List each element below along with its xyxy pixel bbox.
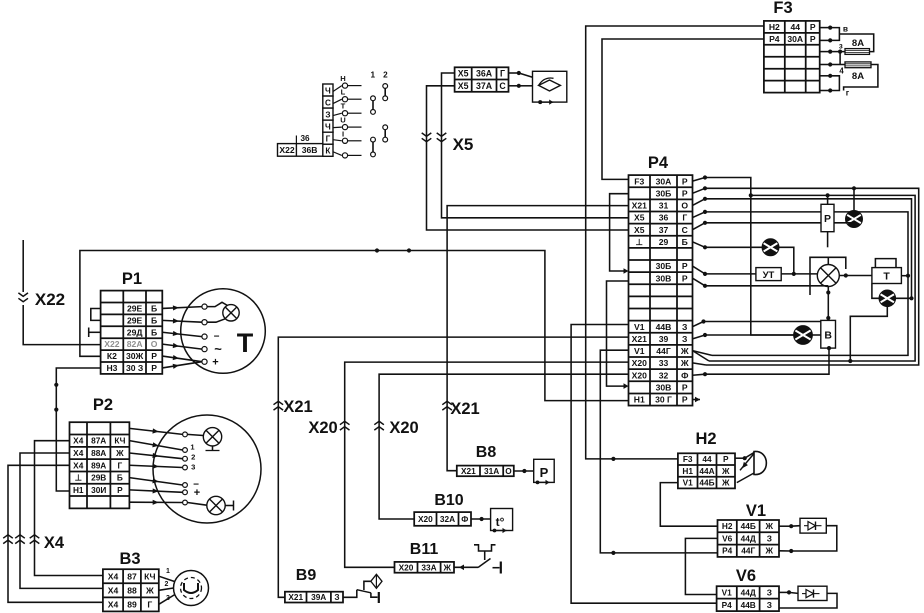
svg-text:Т: Т [883, 271, 890, 283]
svg-text:Т: Т [237, 328, 254, 358]
junction dots on net29 wire [375, 248, 379, 252]
svg-text:Р: Р [117, 485, 123, 495]
svg-text:30 З: 30 З [126, 363, 143, 373]
speedometer housing circle [153, 415, 261, 523]
wire P4 44V to V6 via left vertical [571, 325, 717, 604]
pressure sensor P box [534, 459, 555, 482]
connector block V1 table [718, 520, 780, 557]
B3 terminal wires [159, 576, 175, 581]
switch contact terminals H L T U I [333, 74, 362, 158]
wire X4-87 net [35, 441, 103, 576]
svg-text:44: 44 [790, 22, 800, 32]
connector block V6 table [717, 586, 779, 611]
sensor t output arrow [493, 529, 497, 533]
svg-text:О: О [505, 466, 512, 476]
lamp HL2 mid with leads row6 [693, 242, 706, 247]
wire B10 to sensor box [471, 518, 491, 520]
harness break X5 [437, 133, 447, 136]
svg-text:F3: F3 [773, 0, 792, 17]
wire X4-88 net [20, 453, 103, 588]
svg-text:С: С [325, 98, 331, 107]
svg-text:44Б: 44Б [741, 521, 756, 531]
svg-text:8А: 8А [852, 71, 864, 82]
F3 row4 wire to fuse2 left [830, 64, 845, 66]
relay P box [827, 195, 829, 204]
svg-text:Н2: Н2 [722, 521, 733, 531]
P1 to tachometer connection wires [162, 307, 202, 309]
F3 bracket rows3-4 [839, 52, 841, 65]
svg-text:В: В [824, 330, 832, 342]
switch position columns 1 2 with contact bars [371, 71, 389, 157]
row9 wire to main lamp bottom [693, 278, 706, 286]
fuse2 return wire to rows5-6 [844, 65, 878, 91]
relay T right wire [901, 275, 908, 277]
svg-text:Ж: Ж [680, 358, 689, 368]
svg-text:1: 1 [371, 71, 376, 80]
svg-text:Т: Т [341, 102, 346, 111]
V6 diode box [779, 591, 789, 593]
wire X5 row1 to flasher [509, 72, 519, 74]
flasher diamond symbol [539, 80, 561, 91]
svg-text:89: 89 [127, 599, 137, 609]
harness wire X22 [22, 240, 24, 292]
svg-text:39А: 39А [311, 592, 326, 602]
harness break X21 left [274, 401, 284, 404]
svg-text:Ч: Ч [325, 86, 331, 95]
svg-text:Ж: Ж [721, 478, 730, 488]
nested loop wire A row2 [693, 188, 706, 193]
svg-text:Г: Г [147, 599, 152, 609]
svg-text:33А: 33А [421, 562, 436, 572]
svg-text:В3: В3 [119, 550, 140, 568]
svg-text:Р: Р [540, 465, 549, 480]
V6 diode return loop [779, 593, 837, 608]
H2 horn symbol bell [754, 451, 766, 474]
svg-text:8А: 8А [852, 38, 864, 49]
svg-text:С: С [682, 225, 688, 235]
svg-text:Р4: Р4 [722, 600, 733, 610]
svg-text:Р: Р [151, 363, 157, 373]
svg-text:Б: Б [117, 473, 123, 483]
svg-text:39: 39 [659, 334, 669, 344]
B11 switch wire with arrow [454, 566, 478, 568]
svg-text:X21: X21 [450, 400, 479, 418]
P2 to speedometer wires [129, 428, 182, 434]
P4 row1 wire to indicator lamp via right vertical [693, 178, 706, 182]
svg-text:З: З [325, 110, 330, 119]
tachometer terminals [202, 304, 207, 309]
svg-text:Ж: Ж [765, 521, 774, 531]
svg-text:Г: Г [326, 135, 331, 144]
main lamp top lead [827, 257, 829, 264]
P4 row13 wire to relay V top [693, 322, 704, 327]
connector B11 [395, 562, 455, 573]
svg-text:36: 36 [659, 213, 669, 223]
svg-text:44Д: 44Д [741, 587, 756, 597]
wire P4 44G to V1 via left vertical [600, 350, 718, 553]
svg-text:30Ж: 30Ж [126, 351, 144, 361]
H2 lead row1 [735, 457, 745, 459]
svg-text:87А: 87А [91, 436, 106, 446]
relay V bottom wire to row17 [693, 374, 706, 375]
svg-text:Г: Г [682, 213, 687, 223]
svg-text:Н: Н [340, 74, 345, 83]
svg-text:В11: В11 [410, 541, 439, 558]
svg-text:В8: В8 [476, 444, 497, 461]
svg-text:V1: V1 [683, 478, 694, 488]
svg-text:36: 36 [300, 134, 310, 143]
wire P4 X21-31 down to B8 [447, 206, 628, 471]
connector B9 [285, 592, 343, 603]
svg-text:44Г: 44Г [741, 546, 755, 556]
svg-text:Р2: Р2 [93, 396, 113, 414]
svg-text:З: З [767, 600, 772, 610]
indicator lamp HL3 [879, 290, 896, 307]
svg-text:4: 4 [839, 66, 844, 75]
bracket frame around main lamp [810, 257, 846, 295]
svg-text:V6: V6 [722, 533, 733, 543]
indicator lamp HL1 top right [853, 188, 855, 210]
svg-text:X20: X20 [418, 514, 433, 524]
svg-text:X20: X20 [399, 562, 414, 572]
svg-text:З: З [682, 322, 687, 332]
svg-text:29: 29 [659, 237, 669, 247]
svg-text:V1: V1 [722, 587, 733, 597]
relay T box [872, 268, 902, 284]
tachometer T housing circle [181, 289, 266, 374]
speedometer lamp top [203, 428, 221, 446]
svg-text:44Д: 44Д [741, 533, 756, 543]
svg-text:87: 87 [127, 571, 137, 581]
P1 row7 wire to P2 H1 net [56, 368, 100, 491]
svg-text:X21: X21 [288, 592, 303, 602]
svg-text:V1: V1 [634, 322, 645, 332]
svg-text:З: З [767, 533, 772, 543]
wire 37A down to P4 X5-37 [427, 86, 629, 230]
harness break X4 marks [30, 535, 40, 538]
svg-text:Ж: Ж [765, 546, 774, 556]
svg-text:Р4: Р4 [722, 546, 733, 556]
main indicator lamp (large) [817, 265, 839, 287]
svg-text:X4: X4 [73, 436, 84, 446]
svg-text:~: ~ [214, 342, 222, 357]
svg-text:37: 37 [659, 225, 669, 235]
connector X22 36B [278, 134, 323, 156]
B9 lamp lead [364, 581, 371, 590]
lamp HL4 to relay V left [812, 334, 820, 336]
svg-text:30 Г: 30 Г [655, 395, 672, 405]
svg-text:X21: X21 [461, 466, 476, 476]
svg-text:Ж: Ж [443, 562, 452, 572]
F3 terminal stubs [820, 27, 831, 29]
connector B10 [414, 512, 471, 526]
svg-text:Р: Р [723, 454, 729, 464]
speedometer terminals [183, 432, 188, 437]
svg-text:Ж: Ж [721, 466, 730, 476]
wire H2 44B to V1 [660, 483, 717, 527]
V1 diode return loop [791, 526, 837, 551]
F3 feed wire to fuse1 right [839, 34, 873, 52]
svg-text:I: I [342, 129, 344, 138]
svg-text:29Д: 29Д [127, 327, 143, 337]
svg-text:Ж: Ж [680, 346, 689, 356]
svg-text:К2: К2 [107, 351, 117, 361]
svg-text:Ж: Ж [115, 448, 124, 458]
fuse block F3 table [764, 21, 820, 93]
svg-text:Р: Р [810, 34, 816, 44]
svg-text:С: С [499, 81, 506, 91]
svg-text:Н1: Н1 [73, 485, 84, 495]
relay UT box with feed from row8 [693, 266, 706, 274]
svg-text:Б: Б [151, 315, 157, 325]
V1 diode box [779, 525, 791, 527]
svg-text:Р: Р [682, 382, 688, 392]
wire 36A down to P4 X5-36 [442, 73, 629, 218]
B11 fixed contact terminal [493, 567, 500, 569]
P1 left terminal mark 29D [89, 331, 101, 333]
svg-text:О: О [151, 339, 158, 349]
turn-signal flasher unit box [533, 71, 567, 102]
svg-text:32: 32 [659, 370, 669, 380]
svg-text:Р: Р [810, 22, 816, 32]
svg-text:X4: X4 [73, 448, 84, 458]
wire V1 44D to V6 [685, 538, 717, 594]
svg-text:X20: X20 [632, 370, 648, 380]
svg-text:⊥: ⊥ [636, 237, 644, 247]
svg-text:X20: X20 [308, 419, 337, 437]
svg-text:30А: 30А [656, 176, 672, 186]
svg-text:36А: 36А [476, 69, 493, 79]
svg-text:32А: 32А [440, 514, 455, 524]
svg-text:X5: X5 [458, 81, 469, 91]
svg-text:Р1: Р1 [122, 270, 142, 288]
svg-text:36В: 36В [302, 145, 318, 155]
svg-text:X5: X5 [634, 225, 645, 235]
F3 bracket rows5-6 [830, 76, 839, 91]
F3 bracket rows1-2 [830, 28, 839, 41]
svg-text:30Б: 30Б [656, 188, 672, 198]
nested loop wire D row4 to relay T right [693, 212, 706, 218]
svg-text:U: U [340, 116, 346, 125]
svg-text:F3: F3 [683, 454, 693, 464]
connector block P1 table [101, 291, 163, 374]
svg-text:З: З [682, 334, 687, 344]
B9 switch lamp diamond [371, 574, 382, 588]
wire X5 row2 to flasher [509, 85, 519, 87]
svg-text:Н2: Н2 [769, 22, 780, 32]
svg-text:Б: Б [682, 237, 688, 247]
svg-text:Б: Б [151, 304, 157, 314]
svg-text:88А: 88А [91, 448, 106, 458]
svg-text:+: + [194, 487, 200, 499]
wire F3 row2 to P4 row1 [602, 39, 764, 179]
svg-text:L: L [341, 88, 346, 97]
lamp HL1 lower lead to row5 wire [693, 223, 706, 230]
svg-text:X21: X21 [632, 201, 648, 211]
svg-text:Ф: Ф [461, 514, 468, 524]
svg-text:33: 33 [659, 358, 669, 368]
svg-text:Ж: Ж [145, 585, 154, 595]
svg-text:1: 1 [166, 568, 170, 575]
B9 switch blade [357, 590, 371, 593]
wire X4-89 net [8, 465, 103, 602]
svg-text:В10: В10 [434, 492, 463, 509]
svg-text:з: з [839, 41, 843, 50]
svg-text:V1: V1 [746, 502, 766, 520]
svg-text:30И: 30И [91, 485, 106, 495]
svg-text:З: З [767, 587, 772, 597]
svg-text:Н1: Н1 [682, 466, 693, 476]
svg-text:X5: X5 [458, 69, 469, 79]
svg-text:Н3: Н3 [106, 363, 117, 373]
svg-text:Р: Р [824, 213, 831, 225]
svg-text:X5: X5 [453, 135, 474, 154]
svg-text:82А: 82А [127, 339, 143, 349]
bracket 30V rows9-18 left of P4 [607, 281, 629, 386]
tachometer lamp leads [207, 302, 227, 306]
flasher output arrow [538, 100, 542, 104]
B11 push-button actuator [484, 552, 486, 561]
H2 horn cone lines [740, 454, 754, 471]
svg-text:Р4: Р4 [769, 34, 780, 44]
svg-text:44А: 44А [699, 466, 714, 476]
fuse F 8A upper [845, 49, 870, 55]
svg-text:X21: X21 [632, 334, 648, 344]
wire P4 X20-33 down to B11 [345, 362, 629, 567]
speedometer lamp bottom [207, 496, 225, 514]
svg-text:Х22: Х22 [35, 290, 65, 309]
svg-text:44: 44 [702, 454, 712, 464]
svg-text:t°: t° [496, 515, 505, 529]
svg-text:X20: X20 [389, 419, 418, 437]
svg-text:44В: 44В [656, 322, 672, 332]
switch colour-code column (cells Ч С З Ч Г К) [323, 84, 333, 156]
svg-text:Г: Г [118, 460, 123, 470]
svg-text:29Е: 29Е [127, 304, 143, 314]
lamp HL3 bottom drop wire [850, 307, 887, 361]
svg-text:X4: X4 [108, 585, 119, 595]
svg-text:X5: X5 [634, 213, 645, 223]
B3 horn housing circle [174, 571, 209, 606]
B9 fixed contact terminal [371, 593, 378, 597]
svg-text:2: 2 [383, 71, 388, 80]
temperature sensor t box [491, 509, 513, 531]
svg-text:30Б: 30Б [656, 261, 672, 271]
svg-text:29В: 29В [91, 473, 106, 483]
UT to main beam lamp wire [781, 273, 817, 275]
main lamp right wire to relay T [839, 275, 872, 277]
svg-text:2: 2 [165, 581, 169, 588]
svg-text:Р: Р [682, 395, 688, 405]
fuse F 8A lower [845, 62, 871, 68]
connector block H2 table [678, 453, 735, 488]
connector block P2 table [70, 422, 130, 508]
svg-text:3: 3 [191, 462, 195, 471]
wire P4 X20-32 down to B10 [379, 374, 628, 519]
svg-text:2: 2 [191, 452, 195, 461]
harness break X20 first [340, 421, 350, 424]
svg-text:44Б: 44Б [699, 478, 714, 488]
svg-text:V1: V1 [634, 346, 645, 356]
svg-text:3: 3 [166, 595, 170, 602]
relay P lower lead [827, 232, 829, 248]
svg-text:88: 88 [127, 585, 137, 595]
P1 left bracket rows 29E-29E [91, 309, 101, 321]
svg-text:V6: V6 [736, 567, 756, 585]
wire net29 long horizontal to P1 K2 [80, 251, 629, 401]
P4 row14 wire to lamp HL4 [693, 335, 706, 339]
svg-text:31А: 31А [484, 466, 499, 476]
svg-text:+: + [212, 357, 218, 369]
wire B8 to sensor box [514, 470, 534, 472]
connector block B3 table [103, 569, 159, 611]
svg-text:30В: 30В [656, 273, 672, 283]
connector block P4 table [629, 175, 693, 405]
indicator lamp HL4 [794, 326, 813, 345]
svg-text:30В: 30В [656, 382, 672, 392]
svg-text:г: г [846, 88, 850, 98]
B9 switch wire [343, 590, 357, 598]
relay T to lamp HL3 lead [872, 284, 879, 299]
svg-text:31: 31 [659, 201, 669, 211]
svg-text:Р: Р [682, 273, 688, 283]
svg-text:КЧ: КЧ [114, 436, 125, 446]
bracket 30B rows2-8 left of P4 [610, 194, 629, 271]
svg-text:Р: Р [151, 351, 157, 361]
svg-text:Р: Р [682, 188, 688, 198]
svg-text:37А: 37А [476, 81, 493, 91]
F3 row3 wire to fuse1 left [830, 51, 845, 53]
nested loop wire C row3 to lamp HL3 [693, 199, 706, 206]
svg-text:44В: 44В [741, 600, 756, 610]
svg-text:X22: X22 [279, 145, 295, 155]
svg-text:X22: X22 [104, 339, 120, 349]
svg-text:УТ: УТ [763, 270, 775, 281]
tachometer lamp [223, 305, 239, 321]
harness break X21 near B8 [442, 401, 452, 404]
connector B8 [457, 466, 514, 477]
terminal loop above relay T [875, 259, 896, 268]
svg-text:О: О [681, 201, 688, 211]
wire F3 row1 to H2 via left vertical [586, 26, 764, 459]
svg-text:Б: Б [151, 327, 157, 337]
svg-text:X21: X21 [283, 398, 312, 416]
svg-text:Н2: Н2 [695, 430, 716, 448]
svg-text:X4: X4 [108, 599, 119, 609]
svg-text:Ф: Ф [681, 370, 689, 380]
harness break X20 second [374, 421, 384, 424]
svg-text:Г: Г [500, 69, 505, 79]
svg-text:X4: X4 [73, 460, 84, 470]
P4 row19 stub arrow [695, 397, 700, 403]
svg-text:⊥: ⊥ [75, 473, 82, 483]
svg-text:В9: В9 [296, 567, 317, 584]
svg-text:Р4: Р4 [648, 154, 669, 172]
svg-text:44Г: 44Г [656, 346, 671, 356]
svg-text:Р: Р [682, 261, 688, 271]
B11 switch blade [478, 559, 491, 568]
svg-text:Ч: Ч [325, 122, 331, 131]
svg-text:Н1: Н1 [634, 395, 645, 405]
svg-text:КЧ: КЧ [144, 571, 156, 581]
svg-text:З: З [334, 592, 339, 602]
wire P4 X21-39 down to B9 [278, 337, 628, 597]
svg-text:F3: F3 [634, 176, 644, 186]
svg-text:в: в [843, 24, 848, 34]
sensor P output arrow [536, 481, 540, 485]
svg-text:89А: 89А [91, 460, 106, 470]
relay V box [821, 320, 836, 348]
